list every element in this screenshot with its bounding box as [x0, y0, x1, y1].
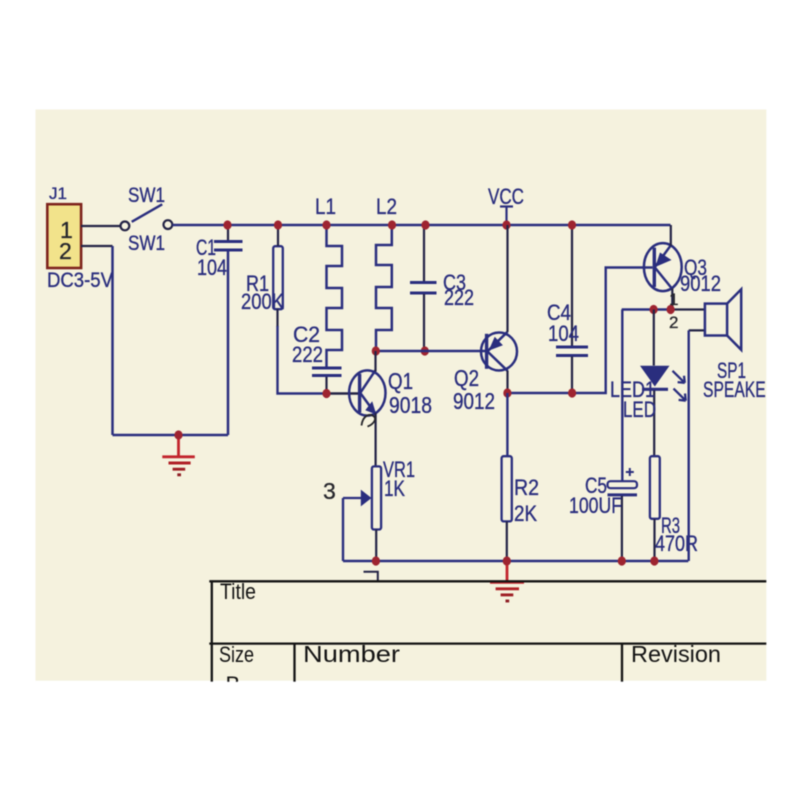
capacitor C1 [214, 242, 243, 251]
junction dot C2/Q1 base node [322, 389, 330, 398]
junction dot C5/ground bus [618, 556, 626, 565]
junction dot C3/bus [421, 220, 429, 229]
svg-text:470R: 470R [655, 531, 698, 556]
resistor R2 [502, 456, 512, 521]
svg-text:SW1: SW1 [128, 232, 165, 255]
C4 bottom stub [571, 357, 573, 394]
svg-text:Size: Size [219, 642, 254, 667]
transistor Q2 [481, 332, 517, 371]
wire: top VCC bus [172, 224, 670, 227]
white crop top [0, 0, 800, 109]
LED1 bottom stub [653, 391, 655, 457]
wire: J1 pin2 down leg [111, 246, 114, 435]
connector J1 [47, 204, 81, 268]
R2 top wire [506, 393, 508, 456]
svg-text:2K: 2K [514, 501, 537, 526]
bracket mark near title block [364, 572, 378, 581]
svg-text:9012: 9012 [453, 388, 495, 414]
svg-text:Q1: Q1 [388, 368, 413, 394]
svg-text:2: 2 [59, 238, 72, 264]
svg-text:104: 104 [548, 321, 579, 346]
white crop right [766, 0, 800, 800]
junction dot L1/bus [322, 220, 330, 229]
R1 top stub [277, 225, 279, 246]
R2 bottom pin [506, 522, 508, 562]
junction dot C4/base wire [568, 388, 576, 397]
junction dot Q2 collector [503, 388, 511, 397]
R1 bottom pin [276, 309, 278, 327]
svg-text:1: 1 [669, 290, 678, 309]
svg-text:100UF: 100UF [569, 493, 622, 518]
svg-text:1K: 1K [384, 476, 405, 501]
junction dot VCC/bus [502, 220, 510, 229]
Q2 emitter stub to bus [506, 225, 508, 332]
capacitor C5 [608, 468, 638, 495]
svg-text:200K: 200K [241, 289, 284, 314]
LED1 top stub [653, 310, 655, 366]
svg-text:LED: LED [623, 397, 656, 422]
svg-text:R2: R2 [514, 475, 539, 500]
ground symbol bottom [490, 565, 524, 601]
svg-text:222: 222 [292, 342, 323, 367]
Q1 emitter stub [375, 413, 377, 467]
switch SW1 [121, 204, 173, 230]
potentiometer VR1 [343, 466, 381, 529]
svg-text:3: 3 [323, 478, 336, 504]
svg-text:SPEAKER: SPEAKER [703, 377, 777, 402]
svg-text:L2: L2 [376, 194, 397, 219]
capacitor C2 [312, 368, 342, 376]
speaker SP1 [705, 289, 741, 350]
junction dot C4/bus [568, 220, 576, 229]
wire: node to Q1 base [327, 392, 360, 394]
C3 bottom stub [423, 294, 425, 351]
resistor R1 [273, 246, 283, 309]
svg-text:DC3-5V: DC3-5V [47, 269, 113, 292]
svg-text:L1: L1 [315, 194, 336, 219]
white crop bottom [0, 682, 800, 800]
junction dot VR1/ground bus [372, 556, 380, 565]
svg-text:Title: Title [220, 579, 256, 604]
svg-text:2: 2 [669, 313, 678, 332]
svg-text:104: 104 [197, 255, 227, 280]
Q1 collector stub [374, 351, 376, 372]
svg-text:9018: 9018 [389, 392, 432, 418]
wire: ground loop bottom [113, 434, 229, 437]
junction dot L2 bottom [372, 346, 380, 355]
junction dot C1/bus [223, 220, 231, 229]
junction dot speaker node [667, 305, 675, 314]
transistor Q1 [349, 370, 385, 415]
junction dot ground loop [174, 430, 182, 439]
svg-text:VCC: VCC [488, 184, 524, 209]
Q3 collector stub [671, 289, 673, 310]
title block [209, 581, 766, 682]
white crop left [0, 0, 36, 800]
R3 bottom pin [653, 519, 655, 561]
inductor L1 [327, 226, 343, 368]
junction dot L2/bus [388, 220, 396, 229]
pin 2 wire of J1 [81, 245, 113, 247]
wire: Q2 collector node to Q3 base [507, 268, 652, 394]
wire: C5 top leg [621, 310, 623, 482]
pin 1 wire of J1 [81, 225, 120, 227]
svg-text:9012: 9012 [680, 271, 721, 296]
schematic sheet background [36, 109, 767, 680]
capacitor C3 [410, 283, 437, 294]
junction dot C3/base wire [421, 346, 429, 355]
speaker pin 1 wire [671, 308, 705, 310]
capacitor C4 [556, 347, 588, 356]
VR1 bottom pin [375, 530, 377, 562]
ground symbol left [162, 439, 195, 475]
resistor R3 [650, 456, 660, 519]
C5 bottom stub [621, 496, 623, 561]
svg-text:222: 222 [444, 285, 474, 310]
LED LED1 [640, 366, 686, 401]
speaker pin 2 wire [689, 329, 705, 331]
Q2 collector stub [506, 371, 508, 394]
wire: VR1 wiper loop [342, 498, 344, 561]
Q1 pin 2 mark [362, 415, 376, 427]
junction dot LED top [650, 305, 658, 314]
wire: L2/Q1 collector to Q2 base [376, 350, 487, 352]
junction dot R2/ground bus [503, 556, 511, 565]
C4 top stub [571, 225, 573, 346]
svg-text:J1: J1 [49, 184, 67, 203]
wire: emitter node to LED/C5 [622, 308, 671, 310]
Q3 emitter stub to bus [670, 225, 672, 246]
wire: speaker pin2 down to ground bus [688, 330, 690, 561]
C3 top stub [423, 225, 425, 281]
C2 bottom stub [325, 377, 327, 394]
wire: C1 down leg [227, 250, 230, 435]
C1 top stub [227, 225, 229, 240]
power port VCC [488, 184, 524, 225]
svg-text:Revision: Revision [631, 641, 721, 667]
junction dot R3/ground bus [650, 556, 658, 565]
junction dot R1/bus [274, 220, 282, 229]
transistor Q3 [644, 243, 682, 291]
svg-text:Number: Number [303, 641, 400, 667]
svg-text:SW1: SW1 [128, 184, 165, 207]
wire: ground bus [343, 560, 688, 563]
wire: R1 to Q1 base node [278, 326, 327, 394]
inductor L2 [376, 226, 392, 351]
